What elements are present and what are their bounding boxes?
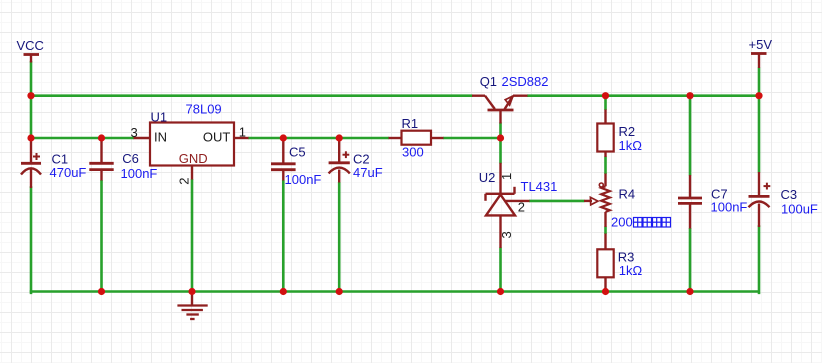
node U2/bottom-bus bbox=[497, 288, 504, 295]
wire bottom bus bbox=[30, 290, 759, 293]
wire C2 bottom bbox=[338, 182, 341, 292]
svg-text:100nF: 100nF bbox=[711, 199, 748, 214]
svg-text:C5: C5 bbox=[289, 144, 306, 159]
svg-text:3: 3 bbox=[499, 231, 514, 238]
svg-text:1: 1 bbox=[239, 125, 246, 140]
node base/U2 bbox=[497, 134, 504, 141]
wire R2 top stub bbox=[604, 96, 607, 110]
node VCC/mid-rail bbox=[27, 134, 34, 141]
transistor Q1 bbox=[472, 96, 528, 124]
wire VCC column drop bbox=[30, 62, 33, 139]
svg-text:100nF: 100nF bbox=[285, 172, 322, 187]
node C6/mid-rail bbox=[98, 134, 105, 141]
svg-text:C3: C3 bbox=[781, 187, 798, 202]
svg-text:200: 200 bbox=[611, 215, 633, 230]
resistor R1 bbox=[389, 131, 444, 145]
power flag +5V bbox=[751, 54, 767, 69]
node C5/bottom-bus bbox=[280, 288, 287, 295]
wire C7 top bbox=[689, 96, 692, 176]
wire +5V to C3 bbox=[758, 96, 761, 173]
wire U2 ref to R4 wiper bbox=[529, 200, 585, 203]
capacitor C1 bbox=[21, 136, 41, 188]
svg-text:R2: R2 bbox=[619, 124, 636, 139]
node C2/bottom-bus bbox=[336, 288, 343, 295]
svg-text:470uF: 470uF bbox=[50, 165, 87, 180]
capacitor C6 bbox=[89, 139, 113, 181]
svg-text:2SD882: 2SD882 bbox=[502, 74, 549, 89]
IC U1 78L09 box bbox=[134, 123, 249, 180]
svg-text:1kΩ: 1kΩ bbox=[619, 263, 643, 278]
wire U1 gnd column bbox=[191, 179, 194, 292]
label 200 multi-turn note bbox=[611, 215, 633, 230]
potentiometer R4 bbox=[584, 174, 610, 228]
wire +5V drop bbox=[758, 68, 761, 96]
wire R4 to R3 bbox=[604, 227, 607, 235]
node R3/bottom-bus bbox=[602, 288, 609, 295]
wire C3 bottom bbox=[758, 227, 761, 293]
wire R2 to R4 bbox=[604, 157, 607, 175]
node gnd/bottom-bus bbox=[188, 288, 195, 295]
wire C6 bottom bbox=[100, 180, 103, 292]
node +5V/top-bus bbox=[755, 92, 762, 99]
resistor R3 bbox=[597, 234, 613, 292]
wire C1 bottom bbox=[30, 188, 33, 293]
svg-text:1: 1 bbox=[499, 173, 514, 180]
svg-text:TL431: TL431 bbox=[521, 179, 558, 194]
capacitor C7 bbox=[678, 175, 702, 229]
svg-text:U2: U2 bbox=[479, 170, 496, 185]
node R2/top-bus bbox=[602, 92, 609, 99]
wire node to U2 cathode bbox=[499, 138, 502, 164]
node C5/mid-rail bbox=[280, 134, 287, 141]
svg-text:OUT: OUT bbox=[203, 130, 231, 145]
wire Q1 base to node bbox=[499, 123, 502, 139]
svg-text:2: 2 bbox=[518, 200, 525, 215]
wire top bus left (VCC to Q1 collector) bbox=[31, 94, 473, 97]
node C7/bottom-bus bbox=[686, 288, 693, 295]
svg-text:C6: C6 bbox=[122, 151, 139, 166]
svg-text:+5V: +5V bbox=[749, 37, 773, 52]
wire mid rail segment A bbox=[30, 137, 134, 140]
capacitor C2 bbox=[329, 139, 350, 183]
label R4 note CJK chars bbox=[634, 218, 671, 228]
svg-text:2: 2 bbox=[176, 178, 191, 185]
node C7/top-bus bbox=[686, 92, 693, 99]
capacitor C3 bbox=[749, 172, 771, 227]
capacitor C5 bbox=[271, 139, 296, 181]
svg-text:IN: IN bbox=[154, 130, 167, 145]
ground bbox=[177, 292, 207, 320]
svg-text:VCC: VCC bbox=[17, 38, 44, 53]
svg-text:78L09: 78L09 bbox=[186, 102, 222, 117]
wire mid rail segment C bbox=[443, 137, 501, 140]
svg-text:1kΩ: 1kΩ bbox=[619, 138, 643, 153]
svg-text:47uF: 47uF bbox=[353, 165, 383, 180]
wire C7 bottom bbox=[689, 228, 692, 292]
svg-text:3: 3 bbox=[131, 125, 138, 140]
node VCC/top-bus bbox=[27, 92, 34, 99]
svg-text:100uF: 100uF bbox=[781, 202, 818, 217]
wire C5 bottom bbox=[282, 180, 285, 292]
svg-text:U1: U1 bbox=[151, 110, 168, 125]
node C2/mid-rail bbox=[336, 134, 343, 141]
svg-text:Q1: Q1 bbox=[480, 74, 497, 89]
resistor R2 bbox=[597, 110, 613, 158]
node C6/bottom-bus bbox=[98, 288, 105, 295]
svg-text:GND: GND bbox=[179, 151, 208, 166]
svg-text:300: 300 bbox=[402, 145, 424, 160]
svg-text:R1: R1 bbox=[402, 116, 419, 131]
power flag VCC bbox=[24, 55, 40, 63]
wire U2 anode column bbox=[499, 248, 502, 292]
wire top bus right (Q1 emitter to +5V corner) bbox=[527, 94, 759, 97]
svg-text:100nF: 100nF bbox=[121, 166, 158, 181]
wire mid rail segment B bbox=[248, 137, 389, 140]
svg-text:R4: R4 bbox=[619, 187, 636, 202]
shunt reference U2 TL431 bbox=[486, 163, 530, 248]
